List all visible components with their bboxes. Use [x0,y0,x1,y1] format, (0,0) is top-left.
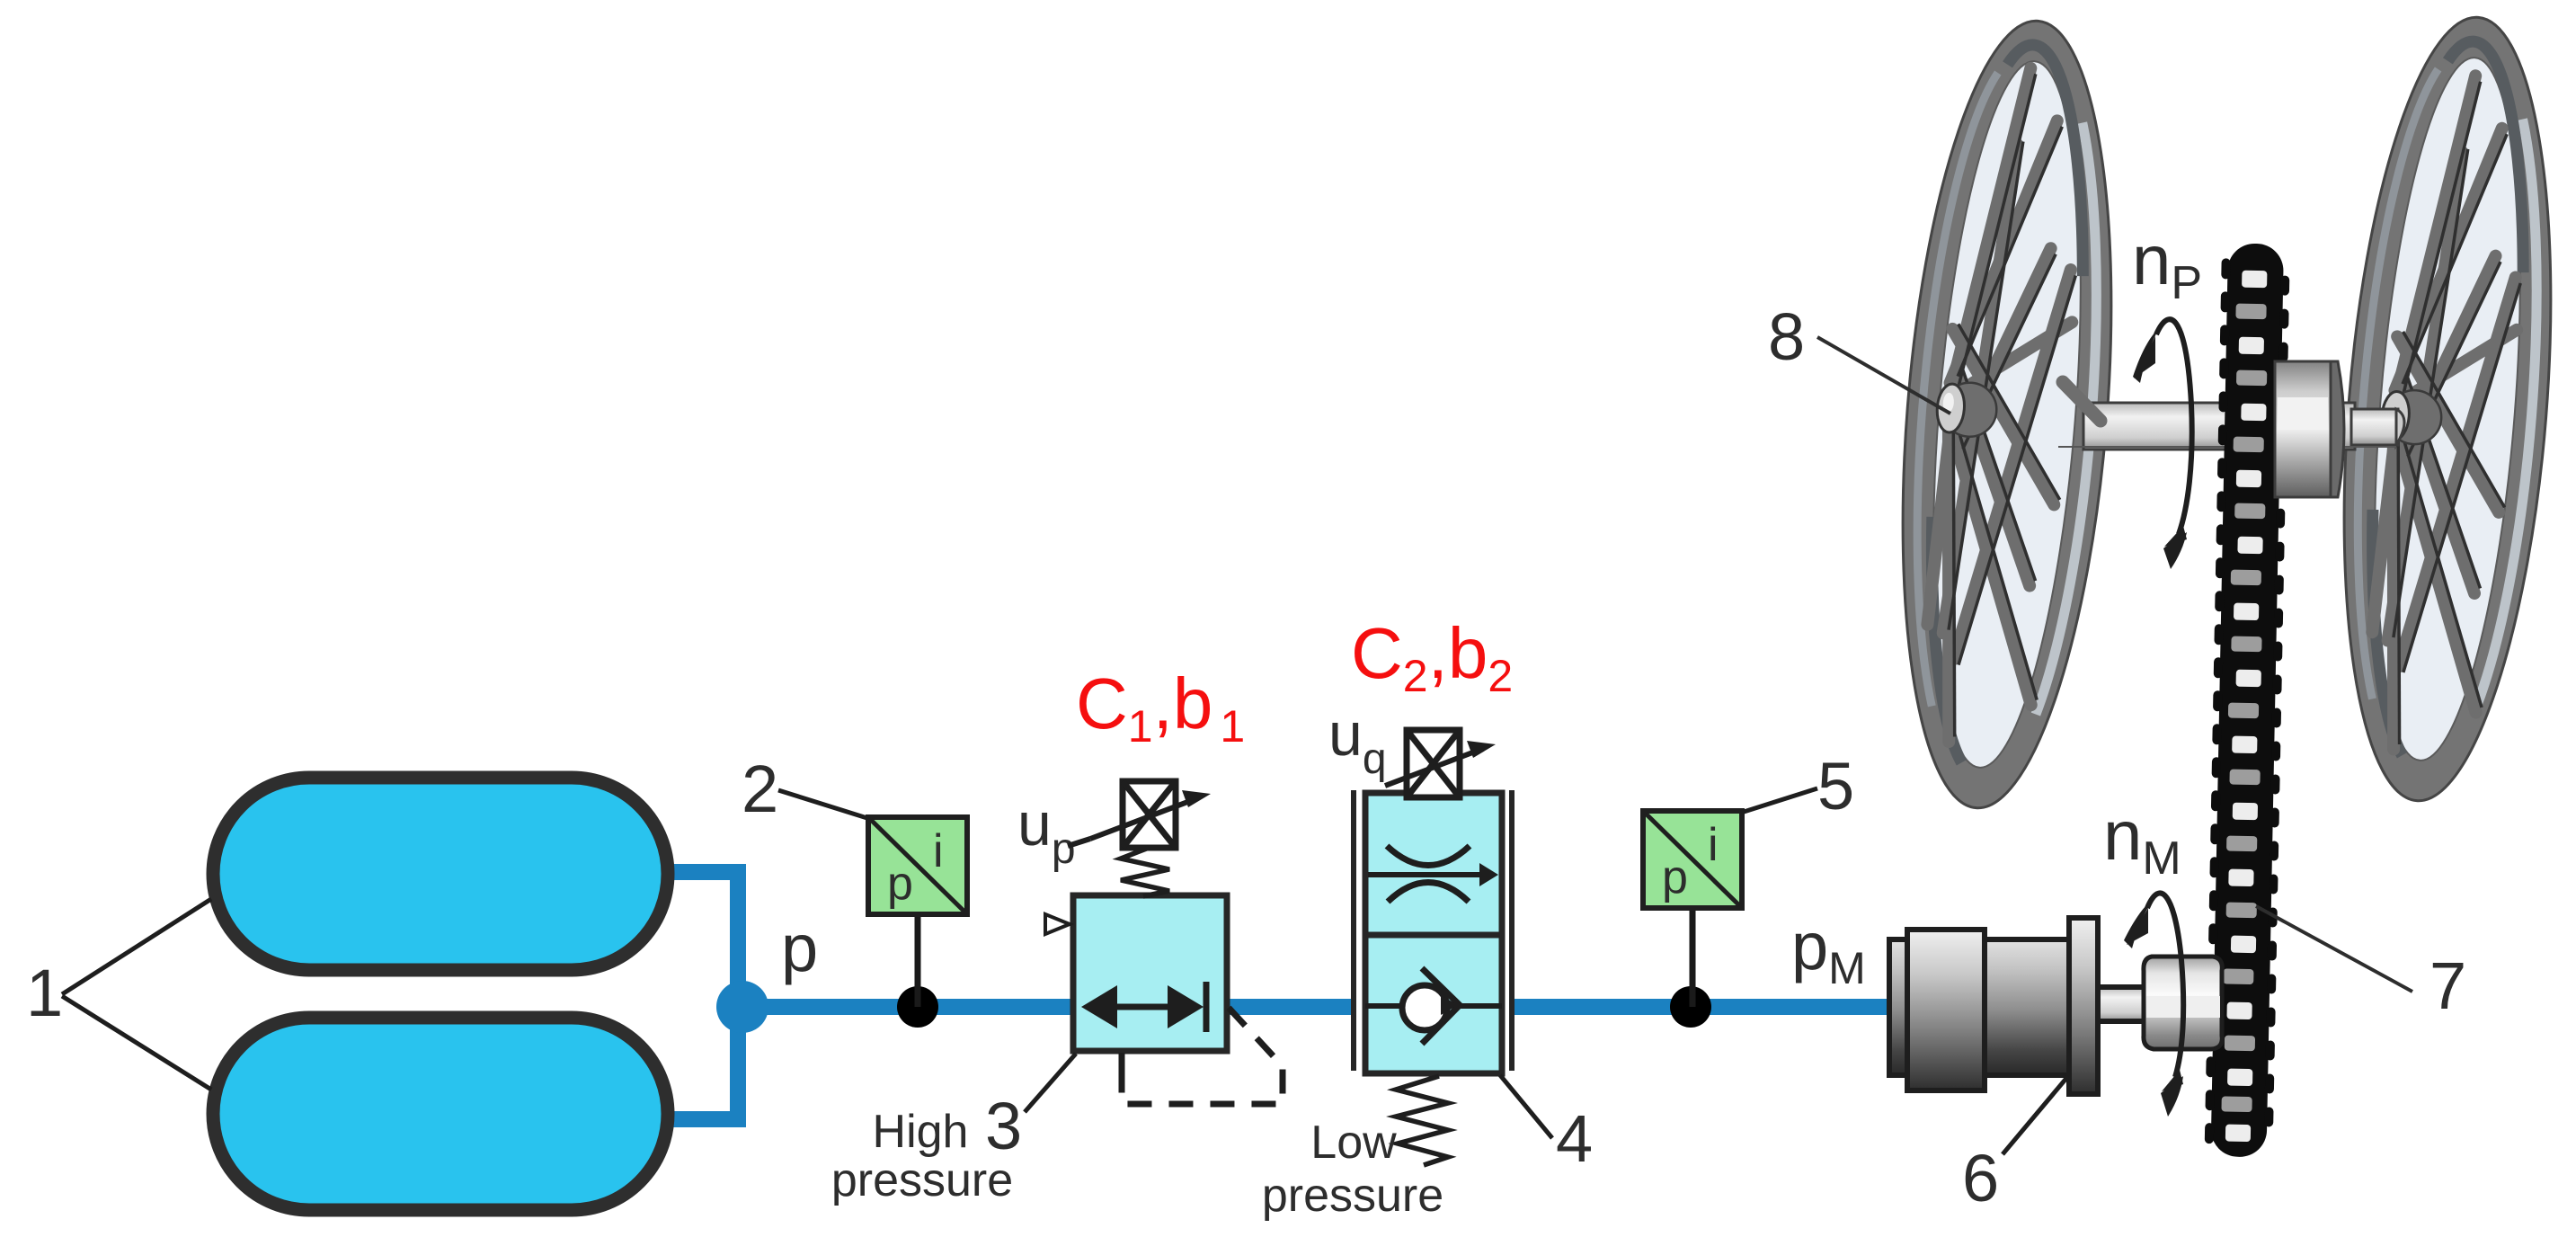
svg-text:6: 6 [1962,1141,1999,1215]
valve 3 solenoid box [1123,781,1176,848]
sensor 2 stem wire [915,914,921,1007]
rotation arrow nM [2147,893,2183,1077]
svg-text:3: 3 [985,1089,1022,1163]
chain 7 [2209,243,2286,1157]
valve 3 pilot vent triangle [1045,914,1070,934]
pointer 4 [1500,1075,1552,1138]
wire : tank manifold [667,872,1891,1119]
valve 3 internal double arrow [1081,982,1206,1032]
valve 4 divider [1365,932,1502,939]
node sensor2 tap [897,986,938,1028]
flywheel 8 : right disc [2318,10,2576,809]
valve 3 spring [1121,848,1169,896]
flywheel shaft [2058,403,2404,449]
pointer 8 [1817,337,1950,414]
svg-text:7: 7 [2429,948,2466,1023]
svg-text:i: i [933,825,944,877]
svg-text:p: p [781,911,818,985]
sensor 2 p/i transducer [868,817,967,914]
svg-text:2: 2 [742,752,778,826]
pointer up [1068,839,1090,846]
pointer 3 [1025,1054,1076,1112]
valve 4 throttle arrow [1368,872,1479,877]
valve 3 pilot dashed line [1122,1008,1283,1104]
valve 4 solenoid box [1407,730,1460,797]
valve 4 check valve seat [1422,968,1460,1044]
svg-text:High: High [873,1106,969,1158]
svg-text:8: 8 [1768,299,1805,374]
svg-text:4: 4 [1556,1101,1593,1176]
svg-text:p: p [1662,851,1688,903]
valve 3 solenoid arrow [1090,798,1197,839]
motor sprocket [2144,957,2222,1049]
flywheel 8 : left disc [1877,13,2137,816]
svg-text:pressure: pressure [1262,1170,1443,1222]
motor 6 : air motor assembly [1889,918,2145,1094]
valve 4 check valve poppet [1402,985,1447,1030]
pointer 1b [62,996,211,1090]
valve 4 check valve port lines [1365,1003,1403,1009]
node junction p [716,981,768,1033]
tank 1 (upper air vessel) [213,778,668,970]
svg-text:i: i [1708,819,1719,871]
node sensor5 tap [1670,986,1711,1028]
valve 4 throttle arcs [1387,846,1470,866]
svg-text:pressure: pressure [831,1154,1013,1206]
valve 4 spring [1396,1076,1448,1165]
pointer 6 [2003,1076,2068,1154]
pointer 1a [62,899,211,994]
pointer 7 [2256,906,2412,992]
pointer 2 [778,790,870,819]
svg-text:p: p [887,858,913,910]
sensor 5 p/i transducer [1643,811,1742,908]
svg-text:5: 5 [1817,749,1854,823]
valve 3 : proportional pressure regulator body [1073,895,1227,1051]
valve 4 solenoid arrow [1385,749,1482,786]
valve 3 bottom port stub [1119,1053,1125,1077]
spoke overlay on shaft (left wheel) [2063,382,2101,421]
svg-text:1: 1 [26,956,63,1030]
flywheel hub on shaft [2275,361,2344,497]
sensor 5 stem wire [1690,908,1696,1007]
pointer 5 [1741,788,1817,813]
tank 1 (lower air vessel) [213,1018,668,1210]
svg-text:Low: Low [1310,1117,1397,1169]
rotation arrow nP [2156,319,2192,534]
valve 4 body [1365,793,1502,1073]
valve 4 : flow control with check valve, side rails [1351,790,1356,1071]
